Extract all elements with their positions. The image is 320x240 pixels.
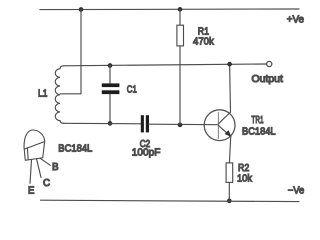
svg-text:C1: C1 xyxy=(127,85,137,96)
wire: tank bottom to C2 xyxy=(64,122,141,125)
+Ve supply rail xyxy=(40,8,299,11)
svg-text:C: C xyxy=(43,178,50,189)
emitter stroke xyxy=(218,125,231,136)
-Ve supply rail xyxy=(41,200,300,201)
wire: C1 bottom lead xyxy=(109,94,111,123)
wire: tank top / collector / output bus xyxy=(64,64,267,66)
lead C xyxy=(37,159,42,178)
base bar xyxy=(217,113,219,139)
svg-text:10k: 10k xyxy=(237,173,253,184)
resistor R1 xyxy=(179,9,181,25)
node: rail junction at L1 tap feed xyxy=(79,7,84,12)
svg-text:TR1: TR1 xyxy=(251,115,263,126)
TO-92 package outline (pinout drawing) xyxy=(24,130,45,160)
emitter arrowhead xyxy=(225,130,232,137)
node: emitter rail junction xyxy=(227,199,232,204)
lead E xyxy=(30,160,32,184)
wire: collector up to output bus xyxy=(229,64,232,112)
capacitor C1 xyxy=(102,83,120,94)
lead B xyxy=(40,158,50,165)
output terminal xyxy=(267,61,272,66)
node: rail junction at R1 xyxy=(178,7,183,12)
svg-text:E: E xyxy=(28,185,35,196)
svg-text:BC184L: BC184L xyxy=(58,143,92,154)
transistor TR1 xyxy=(204,110,235,141)
wire: L1 tap horizontal xyxy=(60,93,81,95)
wire: R2 to -Ve rail xyxy=(228,182,230,201)
svg-text:470k: 470k xyxy=(193,37,215,48)
node: C1 top junction xyxy=(108,63,113,68)
node: C1 bottom junction xyxy=(108,121,113,126)
resistor R2 xyxy=(226,163,233,183)
wire: C2 to base xyxy=(149,123,218,126)
inductor L1 xyxy=(55,66,64,124)
svg-text:+Ve: +Ve xyxy=(287,15,305,26)
wire: +Ve rail down to L1 tap xyxy=(80,10,82,94)
svg-text:L1: L1 xyxy=(38,88,48,99)
svg-text:−Ve: −Ve xyxy=(288,186,305,197)
svg-text:100pF: 100pF xyxy=(132,148,161,159)
wire: emitter down to R2 xyxy=(229,137,230,163)
collector stroke xyxy=(218,112,230,124)
svg-text:BC184L: BC184L xyxy=(242,127,276,138)
svg-text:B: B xyxy=(52,162,59,173)
node: collector / output junction xyxy=(227,62,232,67)
capacitor C2 xyxy=(141,115,149,132)
svg-text:Output: Output xyxy=(252,74,284,85)
wire: C1 top lead xyxy=(109,66,111,84)
node: base bias junction xyxy=(178,123,183,128)
